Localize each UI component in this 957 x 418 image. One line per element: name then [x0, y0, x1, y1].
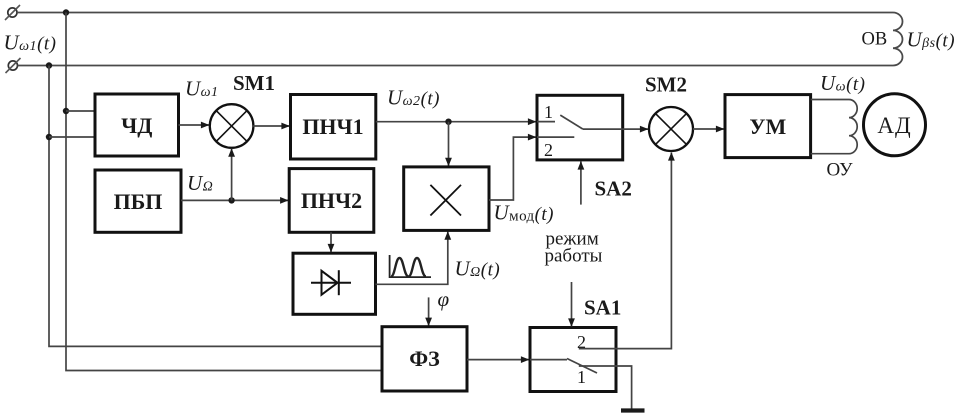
- wire: multiplier output to SA2 input 2: [489, 137, 536, 200]
- wire: branch to ChD input 2: [49, 136, 95, 138]
- svg-text:ПНЧ1: ПНЧ1: [302, 114, 363, 139]
- svg-text:1: 1: [544, 102, 553, 122]
- wire: SA2 output to SM2: [623, 128, 648, 130]
- annotation arrow φ into FZ: [428, 297, 430, 325]
- svg-text:SA1: SA1: [584, 296, 621, 320]
- switch SA1: [530, 328, 616, 392]
- wire: UM output bottom to OU coil: [811, 153, 849, 155]
- svg-text:SM1: SM1: [233, 71, 275, 95]
- block УМ (power amplifier): [725, 95, 811, 158]
- mixer SM1: [210, 104, 254, 148]
- wire: SM2 to UM: [693, 128, 724, 130]
- svg-text:1: 1: [577, 367, 586, 387]
- svg-text:SA2: SA2: [595, 177, 632, 201]
- terminal input 2: [6, 58, 21, 73]
- wire: top supply line 1: [17, 12, 893, 14]
- wire: PBP output to PNCh2: [181, 199, 288, 201]
- svg-text:2: 2: [544, 140, 553, 160]
- svg-text:SM2: SM2: [645, 73, 687, 97]
- svg-text:φ: φ: [438, 287, 450, 311]
- node: junction feeder 1 to ChD: [63, 108, 69, 114]
- wire: SM1 to PNCh1: [253, 125, 289, 127]
- node: junction feeder 2 to ChD: [46, 134, 52, 140]
- block ПБП: [95, 170, 181, 232]
- wire: UM output top to OU coil: [811, 99, 849, 101]
- block ФЗ: [382, 327, 467, 391]
- terminal input 1: [5, 5, 20, 20]
- wire: branch to ChD input 1: [66, 110, 95, 112]
- node: junction on PNCh1 output: [445, 119, 451, 125]
- wire: SA1 contact 2 up to SM2 bottom: [579, 153, 672, 349]
- motor АД: [864, 94, 926, 156]
- node: junction on PBP output: [228, 197, 234, 203]
- wire: vertical feeder from line 1 down to FZ input 2: [66, 13, 382, 371]
- node: junction on line 2: [46, 62, 52, 68]
- block ПНЧ2: [289, 169, 374, 233]
- annotation arrow SA2: [580, 162, 582, 205]
- svg-text:работы: работы: [545, 246, 603, 267]
- coil ОУ (control winding): [849, 100, 857, 154]
- wire: vertical feeder from line 2 down to FZ input 1: [49, 66, 382, 347]
- node: junction on line 1: [63, 9, 69, 15]
- svg-text:ПБП: ПБП: [114, 189, 163, 214]
- svg-text:ПНЧ2: ПНЧ2: [301, 188, 362, 213]
- wire: top supply line 2: [18, 65, 894, 67]
- annotation arrow SA1: [571, 282, 573, 327]
- wire: ChD output to SM1: [179, 124, 210, 126]
- wire: PNCh2 down to rectifier: [330, 232, 332, 252]
- block ПНЧ1: [291, 95, 376, 160]
- ground: [621, 408, 645, 412]
- svg-text:ЧД: ЧД: [121, 113, 152, 138]
- svg-text:АД: АД: [877, 113, 911, 138]
- waveform symbol (rectified humps): [390, 255, 431, 277]
- coil OV (field winding): [893, 13, 903, 66]
- wire: FZ output to SA1: [467, 359, 529, 361]
- svg-text:ОУ: ОУ: [827, 159, 854, 180]
- block ЧД (frequency detector): [95, 94, 179, 156]
- svg-text:ФЗ: ФЗ: [409, 346, 440, 371]
- wire: SA1 contact 1 to ground: [579, 366, 632, 409]
- wire: branch down into multiplier top: [448, 122, 450, 166]
- wire: branch up into SM1 bottom: [231, 149, 233, 201]
- svg-text:ОВ: ОВ: [862, 29, 888, 49]
- switch SA2: [537, 95, 623, 160]
- mixer SM2: [649, 107, 693, 151]
- wire: PNCh1 output to SA2 input 1: [376, 121, 536, 123]
- block rectifier with diode: [293, 253, 376, 314]
- svg-text:УМ: УМ: [749, 114, 786, 139]
- wire: rectifier output up into multiplier bottom: [376, 232, 448, 285]
- block multiplier X: [404, 167, 489, 231]
